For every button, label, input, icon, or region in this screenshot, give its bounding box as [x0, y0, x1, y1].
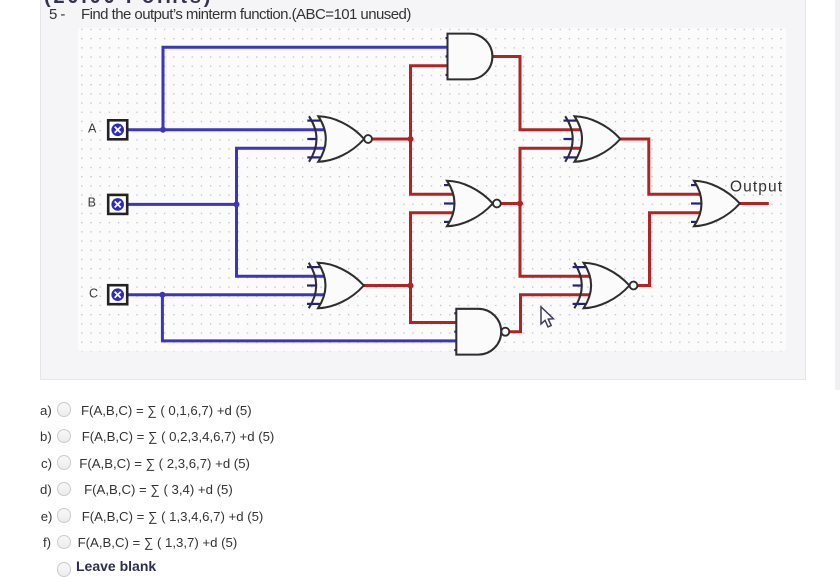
xnor gate U1: [307, 116, 372, 162]
wire U1 output to junction: [372, 138, 411, 141]
answer option f: [43, 535, 51, 550]
wire junction down to NAND U5 input: [411, 286, 459, 323]
wire C row: input C to XOR U2 input: [127, 293, 324, 296]
answer option c: [41, 456, 52, 471]
nor gate U4: [444, 181, 501, 227]
wire XNOR U7 output up to OR U8 input 2: [637, 213, 700, 286]
node A junction: [160, 127, 166, 133]
svg-text:B: B: [88, 196, 96, 210]
wire junction up to AND U3 input: [411, 66, 450, 139]
xnor gate U7: [573, 263, 638, 309]
xor gate U6: [564, 116, 621, 162]
input B toggle box: [108, 195, 127, 214]
xor gate U2: [307, 263, 364, 309]
node B junction: [234, 201, 240, 207]
mouse cursor: [541, 307, 553, 327]
node C junction: [159, 292, 165, 298]
wire NOR U4 output to junction: [501, 202, 520, 205]
wire NAND U5 output up to XNOR U7 input 2: [509, 295, 589, 332]
wire junction down to NOR U4 input 1: [411, 139, 454, 194]
input C toggle box: [108, 285, 127, 304]
question number: [49, 6, 65, 23]
wire AND U3 output down to XOR U6 input 1: [492, 57, 581, 130]
wire A row: input A to XNOR U1 input: [127, 128, 324, 131]
answer option d: [40, 482, 52, 497]
svg-text:A: A: [88, 122, 97, 136]
input A toggle box: [108, 120, 127, 139]
question panel background: [40, 0, 806, 380]
svg-text:C: C: [89, 287, 98, 301]
wire B riser up to XNOR U1 input: [237, 148, 325, 204]
node U4 output junction: [517, 201, 523, 207]
node U1 output junction: [408, 136, 414, 142]
wire C dropper and bottom rail to NAND U5: [162, 295, 458, 341]
node U2 output junction: [408, 283, 414, 289]
answer option b: [40, 429, 52, 444]
question text: [81, 6, 411, 23]
answer option e: [41, 509, 53, 524]
wire B riser down to XOR U2 input: [237, 204, 325, 276]
wire junction down to XNOR U7 input 1: [520, 204, 590, 277]
right edge strip: [835, 0, 840, 390]
and gate U3: [446, 34, 493, 80]
or gate U8: [691, 181, 740, 227]
wire XOR U6 output down to OR U8 input 1: [620, 139, 700, 194]
wire A riser and top rail to AND U3: [163, 47, 450, 130]
circuit canvas: [78, 28, 786, 351]
svg-text:Output: Output: [730, 179, 783, 196]
clipped header text "(20.00 Points)": [44, 0, 213, 9]
wire junction up to XOR U6 input 2: [520, 148, 581, 203]
wire OR U8 output: [740, 202, 769, 205]
wire junction up to NOR U4 input 2: [411, 213, 454, 286]
nand gate U5: [454, 309, 509, 355]
answer option g (clipped): [57, 562, 72, 577]
wire B row: input B to junction: [127, 203, 237, 206]
answer option a: [40, 403, 52, 418]
wire U2 output to junction: [364, 284, 411, 287]
